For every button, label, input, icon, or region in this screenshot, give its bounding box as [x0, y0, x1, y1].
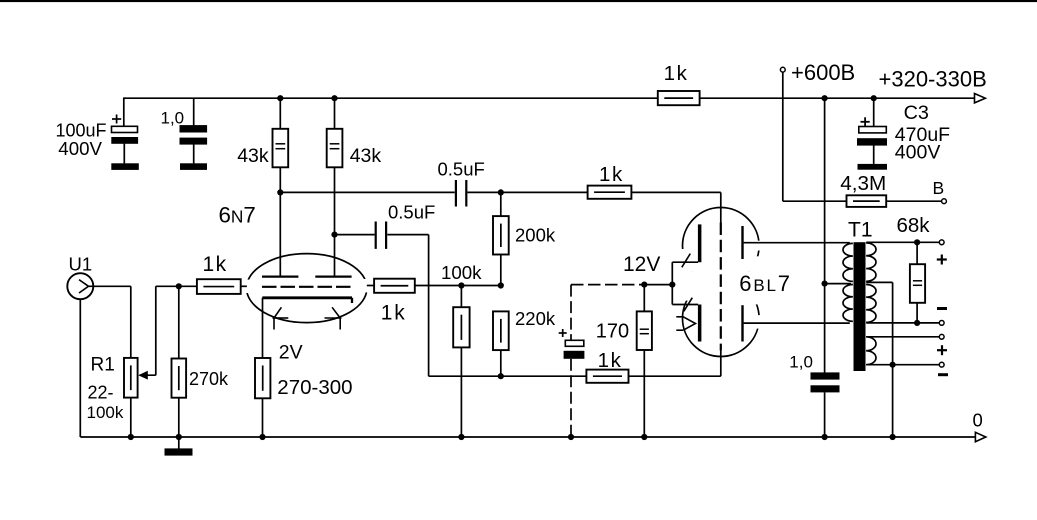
svg-text:6N7: 6N7 [219, 202, 256, 227]
svg-text:43k: 43k [237, 145, 269, 167]
svg-text:12V: 12V [623, 253, 660, 276]
svg-text:220k: 220k [515, 308, 556, 329]
svg-text:T1: T1 [848, 218, 873, 241]
svg-text:U1: U1 [69, 253, 93, 274]
svg-text:43k: 43k [350, 145, 382, 167]
svg-text:68k: 68k [897, 214, 931, 237]
svg-text:1k: 1k [203, 253, 228, 276]
svg-text:1k: 1k [599, 163, 624, 186]
svg-text:R1: R1 [91, 354, 115, 375]
svg-text:0: 0 [973, 409, 983, 430]
svg-text:1k: 1k [381, 301, 407, 324]
svg-text:4,3M: 4,3M [840, 172, 886, 195]
svg-text:C3: C3 [904, 102, 929, 124]
svg-text:100k: 100k [87, 403, 124, 422]
svg-text:270k: 270k [189, 369, 229, 389]
svg-text:400V: 400V [895, 142, 941, 164]
svg-text:+600B: +600B [791, 60, 855, 85]
svg-text:170: 170 [596, 320, 629, 342]
svg-text:1,0: 1,0 [789, 353, 813, 372]
svg-text:1k: 1k [598, 349, 623, 372]
svg-text:2V: 2V [279, 341, 303, 363]
svg-text:1,0: 1,0 [161, 109, 185, 128]
svg-text:B: B [933, 178, 945, 198]
svg-text:0.5uF: 0.5uF [438, 158, 485, 179]
svg-text:22-: 22- [88, 382, 114, 402]
svg-text:0.5uF: 0.5uF [388, 201, 435, 222]
svg-text:1k: 1k [664, 62, 689, 85]
svg-text:400V: 400V [58, 138, 102, 159]
svg-text:270-300: 270-300 [277, 376, 352, 399]
svg-text:200k: 200k [515, 225, 556, 246]
svg-text:+320-330B: +320-330B [879, 66, 987, 91]
svg-text:100k: 100k [441, 262, 482, 283]
